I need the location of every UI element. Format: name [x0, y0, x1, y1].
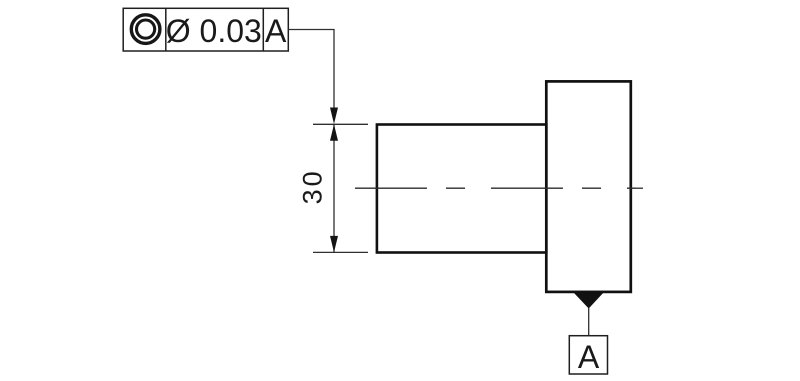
svg-text:Ø 0.03: Ø 0.03	[166, 13, 262, 49]
dimension arrowhead down	[330, 236, 338, 253]
feature control frame	[123, 8, 288, 51]
svg-text:30: 30	[298, 168, 328, 204]
leader arrowhead	[330, 108, 338, 125]
centerline	[355, 187, 643, 189]
concentricity symbol	[131, 15, 160, 44]
datum triangle	[573, 292, 604, 308]
dimension arrowhead up	[330, 124, 338, 141]
datum leader line	[588, 308, 590, 336]
svg-text:A: A	[578, 339, 600, 375]
extension line bottom	[313, 251, 368, 253]
small cylinder body	[377, 125, 546, 253]
datum box	[569, 336, 607, 374]
large flange body	[546, 81, 631, 292]
dimension line 30	[333, 124, 335, 252]
extension line top	[313, 123, 368, 125]
svg-text:A: A	[265, 13, 287, 49]
leader line from frame	[288, 30, 334, 109]
